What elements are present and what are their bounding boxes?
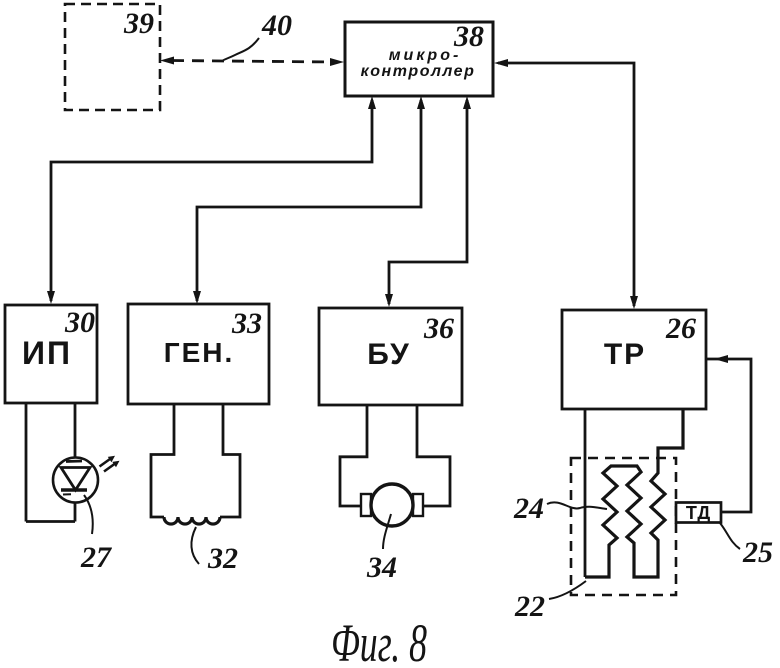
microcontroller block 38 [345,22,493,96]
block 30 ИП (power supply) [5,305,97,403]
leader 40 [222,38,259,61]
wire 40 (dashed bidirectional link 39-38) [160,57,344,67]
sensor 25 ТД (temperature sensor) [676,503,721,524]
heater 24 (heating element zigzags) [585,409,683,577]
wire микро-ГЕН [193,96,425,304]
svg-text:ГЕН.: ГЕН. [164,337,235,368]
LED 27 (photodiode with wires) [26,403,120,522]
svg-text:БУ: БУ [367,338,410,371]
svg-text:ТР: ТР [604,338,646,371]
leader 25 [720,523,740,549]
svg-text:ИП: ИП [22,335,72,371]
leader 27 [84,495,93,534]
svg-text:30: 30 [64,306,95,339]
inductor 32 (coil transducer) [151,404,240,524]
svg-text:25: 25 [742,536,773,569]
wire микро-ТР [494,59,638,309]
svg-text:26: 26 [665,312,696,345]
leader 34 [383,514,391,549]
svg-text:34: 34 [366,551,397,584]
block 33 ГЕН (generator) [128,304,269,404]
leader 32 [191,527,199,564]
svg-text:38: 38 [453,20,484,53]
svg-text:39: 39 [123,7,154,40]
leader 24 [547,502,607,509]
svg-text:40: 40 [261,9,292,42]
block 36 БУ (control unit) [319,308,462,405]
block 39 (dashed optional block) [65,4,160,110]
svg-text:ТД: ТД [686,503,711,523]
svg-text:микро-: микро- [389,47,462,64]
svg-text:27: 27 [80,541,112,574]
light emission arrows [100,459,111,467]
motor 34 (DC motor with brushes) [340,404,450,526]
svg-text:22: 22 [514,590,545,623]
wire ТД-ТР [706,355,751,512]
svg-text:33: 33 [231,307,262,340]
svg-text:контроллер: контроллер [361,63,476,80]
block 26 ТР (thermal regulator) [562,310,706,409]
svg-text:Фиг. 8: Фиг. 8 [331,613,427,668]
wire микро-БУ [385,96,471,307]
dashed box 22 (chamber) [571,458,676,595]
wire микро-ИП [47,96,376,304]
svg-text:24: 24 [513,492,544,525]
leader 22 [549,581,586,599]
svg-text:32: 32 [207,542,238,575]
svg-text:36: 36 [423,312,454,345]
